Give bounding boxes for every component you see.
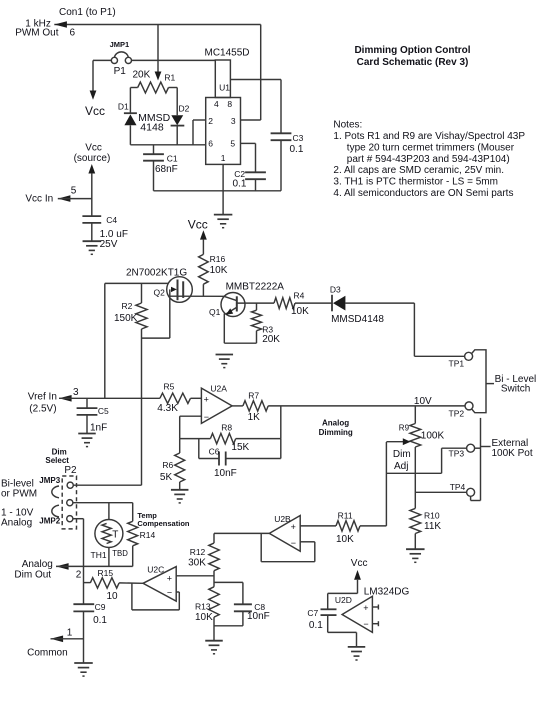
svg-text:Vcc: Vcc — [188, 217, 208, 231]
svg-text:10K: 10K — [291, 306, 309, 317]
svg-text:15K: 15K — [231, 442, 249, 453]
svg-text:R6: R6 — [162, 460, 173, 470]
svg-text:Analog: Analog — [322, 418, 349, 427]
svg-text:30K: 30K — [188, 558, 206, 569]
svg-text:20K: 20K — [133, 70, 151, 81]
svg-text:−: − — [204, 412, 209, 422]
svg-text:Switch: Switch — [501, 383, 530, 394]
svg-text:R2: R2 — [122, 301, 133, 311]
svg-text:2: 2 — [76, 570, 82, 581]
svg-text:Dimming Option Control: Dimming Option Control — [354, 45, 470, 56]
svg-text:R13: R13 — [195, 602, 211, 612]
svg-text:MMBT2222A: MMBT2222A — [226, 282, 285, 293]
svg-text:TH1: TH1 — [91, 550, 107, 560]
svg-text:JMP3: JMP3 — [39, 476, 60, 485]
svg-text:4. All semiconductors are ON S: 4. All semiconductors are ON Semi parts — [333, 188, 513, 199]
svg-text:U2B: U2B — [274, 514, 291, 524]
svg-text:R5: R5 — [164, 382, 175, 392]
svg-text:R15: R15 — [98, 568, 114, 578]
svg-text:1: 1 — [67, 628, 73, 639]
svg-text:11K: 11K — [424, 521, 441, 532]
svg-text:6: 6 — [70, 27, 76, 38]
svg-text:MC1455D: MC1455D — [205, 48, 250, 59]
svg-text:JMP2: JMP2 — [39, 517, 60, 526]
svg-text:+: + — [204, 395, 209, 405]
svg-text:4.3K: 4.3K — [157, 403, 178, 414]
svg-text:Adj: Adj — [394, 461, 408, 472]
svg-text:(2.5V): (2.5V) — [29, 404, 56, 415]
svg-text:Vcc In: Vcc In — [25, 194, 53, 205]
svg-text:U2D: U2D — [335, 595, 352, 605]
svg-text:MMSD4148: MMSD4148 — [331, 314, 384, 325]
svg-text:Vcc: Vcc — [351, 558, 368, 569]
svg-text:R11: R11 — [338, 511, 353, 521]
svg-text:D1: D1 — [118, 101, 129, 111]
svg-text:C7: C7 — [307, 608, 318, 618]
svg-text:C5: C5 — [98, 406, 109, 416]
svg-text:10: 10 — [107, 591, 119, 602]
svg-text:10nF: 10nF — [247, 611, 270, 622]
svg-text:(source): (source) — [74, 153, 111, 164]
svg-text:25V: 25V — [100, 239, 118, 250]
svg-text:U1: U1 — [219, 82, 230, 92]
svg-text:100K: 100K — [421, 431, 445, 442]
svg-text:Vcc: Vcc — [85, 104, 105, 118]
svg-text:R7: R7 — [248, 391, 259, 401]
svg-text:5K: 5K — [160, 472, 173, 483]
svg-text:−: − — [363, 619, 368, 629]
svg-text:R10: R10 — [424, 511, 440, 521]
svg-text:TP1: TP1 — [449, 359, 465, 369]
svg-text:Dim: Dim — [393, 449, 411, 460]
svg-text:10V: 10V — [414, 396, 432, 407]
svg-text:R8: R8 — [221, 423, 232, 433]
svg-text:R1: R1 — [164, 73, 175, 83]
svg-text:U2A: U2A — [210, 384, 227, 394]
svg-text:150K: 150K — [114, 313, 138, 324]
svg-text:−: − — [291, 538, 296, 548]
svg-text:R9: R9 — [399, 424, 410, 433]
svg-text:100K Pot: 100K Pot — [492, 448, 533, 459]
svg-text:C9: C9 — [95, 602, 106, 612]
svg-text:10K: 10K — [336, 534, 354, 545]
svg-text:+: + — [167, 574, 172, 584]
svg-text:Q2: Q2 — [154, 288, 166, 298]
svg-text:TP4: TP4 — [450, 482, 466, 492]
svg-text:20K: 20K — [262, 334, 280, 345]
svg-text:Card Schematic (Rev 3): Card Schematic (Rev 3) — [357, 57, 469, 68]
svg-text:2: 2 — [208, 116, 213, 126]
svg-text:R4: R4 — [294, 291, 305, 301]
svg-text:U2C: U2C — [147, 565, 164, 575]
svg-text:Dim Out: Dim Out — [14, 570, 51, 581]
svg-text:Notes:: Notes: — [333, 119, 362, 130]
svg-text:R14: R14 — [140, 530, 156, 540]
svg-text:TP2: TP2 — [449, 408, 465, 418]
svg-text:P1: P1 — [114, 66, 127, 77]
svg-text:Analog: Analog — [1, 518, 32, 529]
svg-text:4148: 4148 — [140, 121, 164, 133]
svg-text:1K: 1K — [248, 412, 261, 423]
svg-text:1: 1 — [221, 153, 226, 163]
svg-text:0.1: 0.1 — [309, 620, 323, 631]
svg-text:Analog: Analog — [22, 559, 53, 570]
svg-text:2. All caps are SMD ceramic, 2: 2. All caps are SMD ceramic, 25V min. — [333, 165, 504, 176]
svg-text:0.1: 0.1 — [233, 178, 247, 189]
svg-text:68nF: 68nF — [155, 164, 178, 175]
svg-text:C6: C6 — [209, 447, 220, 457]
svg-text:D2: D2 — [179, 104, 190, 114]
svg-text:1. Pots R1 and R9 are Vishay/S: 1. Pots R1 and R9 are Vishay/Spectrol 43… — [333, 131, 525, 142]
svg-text:part # 594-43P203 and 594-43P1: part # 594-43P203 and 594-43P104) — [347, 154, 510, 165]
svg-text:5: 5 — [230, 138, 235, 148]
svg-text:0.1: 0.1 — [93, 615, 107, 626]
svg-text:LM324DG: LM324DG — [364, 587, 410, 598]
svg-text:D3: D3 — [330, 285, 341, 295]
svg-text:−: − — [167, 588, 172, 598]
svg-text:3: 3 — [231, 116, 236, 126]
svg-text:type 20 turn cermet trimmers (: type 20 turn cermet trimmers (Mouser — [347, 142, 515, 153]
svg-text:Compensation: Compensation — [137, 519, 190, 528]
svg-text:0.1: 0.1 — [290, 144, 304, 155]
svg-text:or PWM: or PWM — [1, 489, 37, 500]
svg-text:Dimming: Dimming — [319, 428, 353, 437]
svg-text:3. TH1 is PTC thermistor - LS: 3. TH1 is PTC thermistor - LS = 5mm — [333, 177, 498, 188]
svg-text:Select: Select — [45, 456, 69, 465]
svg-text:5: 5 — [71, 185, 77, 196]
svg-text:TBD: TBD — [112, 549, 128, 558]
svg-text:10K: 10K — [210, 265, 228, 276]
svg-text:Vcc: Vcc — [85, 143, 102, 154]
svg-text:3: 3 — [73, 387, 79, 398]
svg-text:6: 6 — [208, 138, 213, 148]
svg-text:1nF: 1nF — [90, 423, 107, 434]
svg-text:Dim: Dim — [52, 447, 67, 456]
svg-text:R3: R3 — [262, 324, 273, 334]
svg-text:8: 8 — [227, 99, 232, 109]
svg-text:+: + — [363, 603, 368, 613]
svg-text:T: T — [112, 529, 118, 540]
svg-text:TP3: TP3 — [449, 449, 465, 459]
svg-text:Con1 (to P1): Con1 (to P1) — [59, 7, 116, 18]
svg-text:Vref In: Vref In — [28, 392, 57, 403]
svg-text:R16: R16 — [210, 254, 226, 264]
svg-text:PWM Out: PWM Out — [15, 27, 59, 38]
svg-text:10K: 10K — [195, 612, 213, 623]
svg-text:C4: C4 — [106, 215, 117, 225]
svg-text:C1: C1 — [167, 154, 178, 164]
svg-text:Common: Common — [27, 647, 68, 658]
svg-text:+: + — [291, 522, 296, 532]
svg-text:Q1: Q1 — [209, 307, 221, 317]
svg-text:R12: R12 — [190, 547, 206, 557]
svg-text:P2: P2 — [64, 465, 77, 476]
svg-text:C3: C3 — [293, 133, 304, 143]
svg-text:10nF: 10nF — [214, 468, 237, 479]
svg-text:JMP1: JMP1 — [110, 40, 130, 49]
svg-text:4: 4 — [214, 99, 219, 109]
